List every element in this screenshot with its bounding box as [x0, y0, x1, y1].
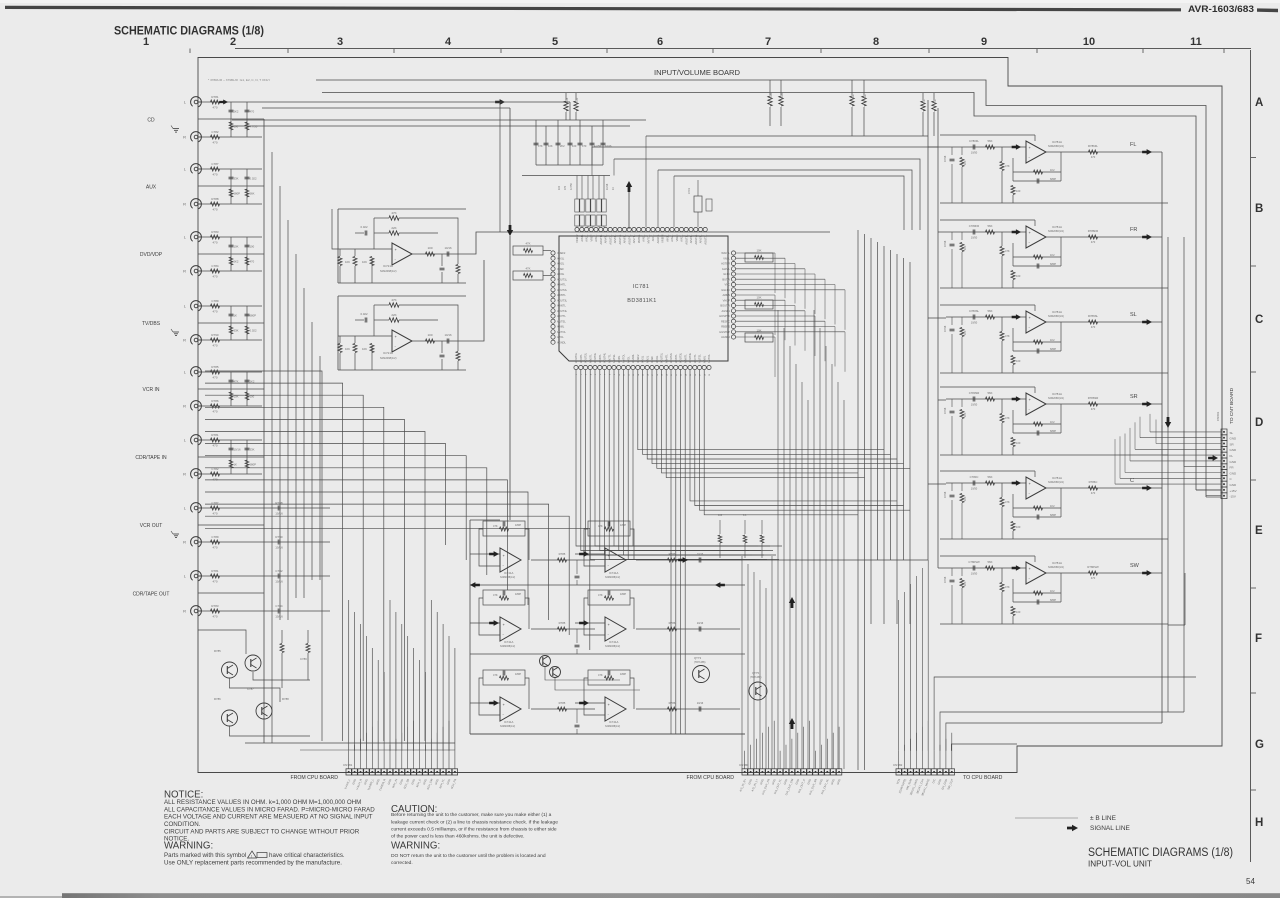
- svg-text:47/16: 47/16: [944, 491, 947, 498]
- svg-text:AIN7TL: AIN7TL: [557, 314, 566, 318]
- svg-text:10K: 10K: [362, 260, 367, 264]
- svg-text:8: 8: [609, 374, 611, 375]
- svg-text:54: 54: [1246, 877, 1255, 886]
- svg-text:VNC: VNC: [725, 283, 731, 287]
- svg-text:1K: 1K: [612, 187, 615, 190]
- svg-text:R790: R790: [211, 333, 219, 337]
- svg-text:56K: 56K: [988, 309, 993, 313]
- svg-text:C780FR: C780FR: [969, 224, 979, 228]
- svg-text:47K: 47K: [1005, 500, 1010, 504]
- svg-text:AIN7TL: AIN7TL: [693, 354, 697, 363]
- svg-text:56K: 56K: [988, 139, 993, 143]
- svg-text:TO CNT BOARD: TO CNT BOARD: [1229, 387, 1235, 424]
- svg-text:AIN6TL: AIN6TL: [683, 354, 687, 363]
- svg-text:AOUT2L: AOUT2L: [557, 288, 568, 292]
- svg-text:GLTC: GLTC: [723, 272, 730, 276]
- svg-text:INPUT-VOL UNIT: INPUT-VOL UNIT: [1088, 860, 1152, 869]
- svg-text:AIN8L: AIN8L: [642, 234, 646, 242]
- svg-text:22K: 22K: [391, 226, 396, 230]
- svg-text:MUTEL: MUTEL: [698, 354, 702, 363]
- svg-text:AIN5TL: AIN5TL: [557, 293, 566, 297]
- svg-text:AOUT4L: AOUT4L: [688, 352, 692, 363]
- svg-text:H: H: [1255, 817, 1263, 829]
- svg-text:AOUT1L: AOUT1L: [599, 234, 603, 245]
- svg-text:HGSTEP: HGSTEP: [719, 330, 730, 334]
- svg-text:AOUT3L: AOUT3L: [703, 234, 707, 245]
- svg-text:FL: FL: [1130, 142, 1136, 148]
- svg-text:100: 100: [1016, 359, 1021, 363]
- svg-text:BD3811K1: BD3811K1: [627, 298, 656, 304]
- svg-text:RBSPS: RBSPS: [721, 325, 730, 329]
- svg-text:C787: C787: [211, 162, 219, 166]
- svg-text:10/50: 10/50: [971, 403, 978, 407]
- svg-text:AIN3L: AIN3L: [680, 234, 684, 242]
- svg-text:470: 470: [212, 512, 217, 516]
- svg-text:AIN3L: AIN3L: [557, 272, 565, 276]
- svg-text:VREF: VREF: [675, 234, 679, 241]
- svg-text:R783: R783: [211, 604, 219, 608]
- svg-text:100: 100: [427, 246, 432, 250]
- svg-text:NJM2068(1/2): NJM2068(1/2): [1048, 481, 1064, 484]
- svg-text:33K: 33K: [250, 448, 255, 452]
- svg-text:R785: R785: [559, 621, 566, 625]
- svg-text:AGSF1: AGSF1: [721, 309, 730, 313]
- svg-text:10K: 10K: [362, 347, 367, 351]
- svg-text:have critical characteristics.: have critical characteristics.: [269, 852, 345, 859]
- svg-text:R788: R788: [211, 197, 219, 201]
- svg-text:10/16: 10/16: [275, 615, 283, 619]
- svg-text:AOUT4L: AOUT4L: [603, 352, 607, 363]
- svg-text:47K: 47K: [526, 267, 531, 271]
- svg-text:MUTEL: MUTEL: [612, 354, 616, 363]
- svg-text:470: 470: [250, 110, 255, 114]
- svg-text:AGNDL: AGNDL: [631, 354, 635, 363]
- svg-text:GND: GND: [1230, 437, 1238, 441]
- svg-text:47K: 47K: [493, 673, 498, 677]
- svg-text:470: 470: [212, 310, 217, 314]
- svg-text:QT75: QT75: [752, 671, 759, 675]
- svg-text:47/16: 47/16: [944, 407, 947, 414]
- svg-text:100: 100: [1016, 189, 1021, 193]
- svg-text:WAVTL: WAVTL: [721, 251, 730, 255]
- svg-text:AIN2L: AIN2L: [645, 355, 649, 363]
- svg-text:470: 470: [1091, 240, 1096, 244]
- svg-text:470: 470: [212, 410, 217, 414]
- svg-text:AIN4TL: AIN4TL: [604, 234, 608, 243]
- svg-text:10K: 10K: [964, 496, 967, 501]
- svg-text:R708: R708: [565, 97, 569, 104]
- svg-text:AIN8L: AIN8L: [557, 325, 565, 329]
- svg-text:IC741A: IC741A: [609, 720, 618, 724]
- svg-text:180P: 180P: [620, 672, 626, 676]
- svg-text:56K: 56K: [988, 475, 993, 479]
- svg-text:VREF: VREF: [557, 267, 564, 271]
- svg-text:C780SW: C780SW: [968, 560, 980, 564]
- svg-text:R786SR: R786SR: [1088, 396, 1099, 400]
- svg-text:7: 7: [765, 36, 771, 48]
- svg-text:2: 2: [230, 36, 236, 48]
- svg-text:100: 100: [250, 245, 255, 249]
- svg-text:AIN4TL: AIN4TL: [664, 354, 668, 363]
- svg-text:AIN4TL: AIN4TL: [557, 283, 566, 287]
- svg-text:47K: 47K: [493, 593, 498, 597]
- svg-text:R: R: [183, 609, 186, 614]
- svg-text:AIN1L: AIN1L: [665, 234, 669, 242]
- svg-text:INPUT/VOLUME BOARD: INPUT/VOLUME BOARD: [654, 68, 740, 77]
- svg-text:470: 470: [212, 546, 217, 550]
- svg-text:GGLTC: GGLTC: [721, 288, 730, 292]
- svg-text:10/16: 10/16: [697, 701, 704, 705]
- svg-text:VREF: VREF: [650, 356, 654, 363]
- svg-text:CONDITION.: CONDITION.: [164, 821, 201, 828]
- svg-text:AOUT1L: AOUT1L: [574, 352, 578, 363]
- svg-text:10/16: 10/16: [234, 448, 241, 452]
- svg-text:47K: 47K: [1005, 585, 1010, 589]
- svg-text:470: 470: [212, 106, 217, 110]
- svg-text:R: R: [183, 135, 186, 140]
- svg-text:470: 470: [564, 185, 567, 190]
- svg-text:E: E: [1255, 525, 1263, 537]
- svg-text:4: 4: [590, 374, 592, 375]
- svg-text:R785: R785: [214, 649, 221, 653]
- svg-text:10K: 10K: [964, 412, 967, 417]
- svg-text:10K: 10K: [757, 296, 762, 300]
- svg-text:2K2: 2K2: [234, 110, 239, 114]
- svg-text:ALL RESISTANCE VALUES IN OHM.: ALL RESISTANCE VALUES IN OHM. k=1,000 OH…: [164, 799, 361, 806]
- svg-text:R: R: [183, 202, 186, 207]
- svg-text:AIN6TL: AIN6TL: [623, 234, 627, 243]
- svg-text:IC781A: IC781A: [1052, 225, 1062, 229]
- svg-text:GND: GND: [1230, 448, 1238, 452]
- svg-text:AIN1L: AIN1L: [641, 355, 645, 363]
- svg-text:VREF2: VREF2: [636, 354, 640, 363]
- svg-text:A: A: [1255, 97, 1263, 109]
- svg-text:VCR IN: VCR IN: [143, 387, 160, 393]
- svg-text:1K2: 1K2: [1050, 420, 1055, 424]
- svg-text:CN782: CN782: [893, 763, 903, 767]
- svg-text:1K2: 1K2: [1050, 338, 1055, 342]
- svg-text:AIN3L: AIN3L: [655, 355, 659, 363]
- svg-text:ALL CAPACITANCE VALUES IN MICR: ALL CAPACITANCE VALUES IN MICRO FARAD. P…: [164, 806, 375, 813]
- svg-text:47K: 47K: [526, 242, 531, 246]
- svg-text:AOUT2L: AOUT2L: [694, 234, 698, 245]
- svg-text:+15V: +15V: [1230, 489, 1237, 493]
- svg-text:IC781: IC781: [633, 284, 650, 290]
- svg-text:47K: 47K: [1005, 249, 1010, 253]
- svg-text:NJM2068(1/2): NJM2068(1/2): [500, 725, 515, 728]
- svg-text:180P: 180P: [620, 592, 626, 596]
- svg-text:AIN1L: AIN1L: [557, 256, 565, 260]
- svg-text:IC741A: IC741A: [609, 571, 618, 575]
- svg-text:AOUT3L: AOUT3L: [593, 352, 597, 363]
- svg-text:Use ONLY replacement parts rec: Use ONLY replacement parts recommended b…: [164, 859, 342, 866]
- svg-text:X701: X701: [687, 187, 691, 194]
- svg-text:10/16: 10/16: [605, 144, 612, 148]
- svg-text:47K: 47K: [1005, 164, 1010, 168]
- svg-text:VNSL: VNSL: [723, 256, 730, 260]
- svg-text:Before returning the unit to t: Before returning the unit to the custome…: [391, 812, 552, 818]
- svg-text:10/50: 10/50: [971, 151, 978, 155]
- svg-text:C780FL: C780FL: [969, 139, 979, 143]
- svg-text:C780SR: C780SR: [969, 391, 980, 395]
- svg-text:AOUT3L: AOUT3L: [679, 352, 683, 363]
- svg-text:10/50: 10/50: [971, 572, 978, 576]
- svg-text:AVR-1603/683: AVR-1603/683: [1188, 4, 1254, 15]
- svg-text:AIN6TL: AIN6TL: [557, 304, 566, 308]
- svg-text:680P: 680P: [1050, 347, 1056, 351]
- svg-text:470: 470: [1091, 491, 1096, 495]
- svg-text:1K2: 1K2: [1050, 504, 1055, 508]
- svg-text:680P: 680P: [1050, 429, 1056, 433]
- svg-text:47K: 47K: [391, 211, 396, 215]
- svg-text:MVTOL: MVTOL: [646, 234, 650, 243]
- svg-text:10K: 10K: [345, 260, 350, 264]
- svg-text:AOUT4L: AOUT4L: [627, 234, 631, 245]
- svg-text:SR: SR: [1130, 394, 1138, 400]
- svg-text:100K: 100K: [780, 93, 784, 99]
- svg-text:AIN8L: AIN8L: [702, 355, 706, 363]
- svg-text:AOUT3L: AOUT3L: [557, 298, 568, 302]
- svg-text:47K: 47K: [493, 524, 498, 528]
- svg-text:C789: C789: [300, 657, 307, 661]
- svg-text:22K: 22K: [851, 94, 855, 99]
- svg-text:10/16: 10/16: [697, 552, 704, 556]
- svg-text:180P: 180P: [620, 523, 626, 527]
- svg-text:0.1: 0.1: [743, 514, 747, 517]
- svg-text:470: 470: [212, 580, 217, 584]
- svg-text:R: R: [183, 540, 186, 545]
- svg-text:100K: 100K: [769, 93, 773, 99]
- svg-text:C784: C784: [211, 264, 219, 268]
- svg-text:NJM2068(1/2): NJM2068(1/2): [380, 269, 397, 273]
- svg-text:10/16: 10/16: [275, 580, 283, 584]
- svg-text:F: F: [1255, 633, 1262, 645]
- svg-text:IC741A: IC741A: [609, 640, 618, 644]
- svg-text:10/16: 10/16: [445, 333, 452, 337]
- svg-text:100: 100: [1016, 525, 1021, 529]
- svg-text:B: B: [1255, 203, 1263, 215]
- svg-text:CN780: CN780: [739, 763, 749, 767]
- svg-text:6: 6: [657, 36, 663, 48]
- svg-text:47K: 47K: [538, 144, 543, 148]
- svg-text:10K: 10K: [234, 245, 239, 249]
- svg-text:SW: SW: [1130, 563, 1140, 569]
- svg-text:SCHEMATIC DIAGRAMS (1/8): SCHEMATIC DIAGRAMS (1/8): [1088, 845, 1233, 859]
- svg-text:* 378RL/R ~ 379BL/R : E1, E2,: * 378RL/R ~ 379BL/R : E1, E2, C, N, T ON…: [208, 78, 270, 82]
- svg-text:SL: SL: [1230, 431, 1234, 435]
- svg-text:10/16: 10/16: [275, 546, 283, 550]
- svg-text:R785: R785: [559, 552, 566, 556]
- svg-text:NJM2068(1/2): NJM2068(1/2): [1048, 315, 1064, 318]
- svg-text:100: 100: [558, 185, 561, 190]
- svg-text:33K: 33K: [234, 329, 239, 333]
- svg-text:20: 20: [666, 374, 668, 376]
- svg-text:R781: R781: [211, 433, 219, 437]
- svg-text:47K: 47K: [1005, 416, 1010, 420]
- svg-text:GLPAL: GLPAL: [722, 267, 731, 271]
- svg-text:DVD/VDP: DVD/VDP: [140, 252, 163, 258]
- svg-text:NJM2068(1/2): NJM2068(1/2): [605, 576, 620, 579]
- svg-text:IC721A: IC721A: [383, 264, 393, 268]
- svg-text:WARNING:: WARNING:: [164, 841, 213, 852]
- svg-text:AOUT4L: AOUT4L: [557, 309, 568, 313]
- svg-text:10/50: 10/50: [971, 321, 978, 325]
- svg-text:NJM2068(1/2): NJM2068(1/2): [1048, 397, 1064, 400]
- svg-text:AIN1L: AIN1L: [580, 234, 584, 242]
- svg-text:R785: R785: [211, 365, 219, 369]
- svg-text:R786FL: R786FL: [1088, 144, 1098, 148]
- svg-text:AIN7TL: AIN7TL: [632, 234, 636, 243]
- svg-text:IC741A: IC741A: [504, 720, 513, 724]
- svg-text:R781: R781: [211, 569, 219, 573]
- svg-text:FR: FR: [1130, 227, 1137, 233]
- svg-text:(TR71485): (TR71485): [694, 661, 706, 664]
- svg-text:C787: C787: [247, 687, 254, 691]
- svg-text:16: 16: [647, 374, 649, 376]
- svg-text:680P: 680P: [234, 192, 241, 196]
- svg-text:R786: R786: [669, 621, 676, 625]
- svg-text:AIN5TL: AIN5TL: [613, 234, 617, 243]
- svg-text:1K2: 1K2: [1050, 589, 1055, 593]
- svg-text:NJM2068(1/2): NJM2068(1/2): [500, 645, 515, 648]
- svg-text:R786: R786: [214, 697, 221, 701]
- svg-text:AIN2L: AIN2L: [585, 234, 589, 242]
- svg-text:5: 5: [552, 36, 558, 48]
- svg-text:0.022: 0.022: [361, 312, 368, 316]
- svg-text:1K: 1K: [234, 314, 238, 318]
- svg-text:470: 470: [212, 208, 217, 212]
- svg-text:C789: C789: [211, 535, 219, 539]
- svg-text:CDR/TAPE OUT: CDR/TAPE OUT: [133, 592, 170, 598]
- svg-text:470: 470: [1091, 407, 1096, 411]
- svg-text:(TR71485): (TR71485): [750, 676, 762, 679]
- svg-text:R786: R786: [669, 552, 676, 556]
- svg-text:-15V: -15V: [1230, 495, 1236, 499]
- svg-text:AIN2L: AIN2L: [670, 234, 674, 242]
- svg-text:C782: C782: [211, 130, 219, 134]
- svg-text:100: 100: [718, 514, 723, 517]
- svg-text:2K2: 2K2: [560, 144, 565, 148]
- svg-text:SL: SL: [1130, 312, 1137, 318]
- svg-text:1: 1: [143, 36, 149, 48]
- svg-text:AIN4TL: AIN4TL: [689, 234, 693, 243]
- svg-text:470: 470: [212, 478, 217, 482]
- svg-text:DO NOT return the unit to the: DO NOT return the unit to the customer u…: [391, 853, 546, 859]
- svg-text:IC741A: IC741A: [504, 640, 513, 644]
- svg-text:470: 470: [1091, 325, 1096, 329]
- svg-text:MVTOL: MVTOL: [622, 354, 626, 363]
- svg-text:C784: C784: [275, 604, 283, 608]
- svg-text:1K2: 1K2: [1050, 168, 1055, 172]
- svg-text:47K: 47K: [391, 298, 396, 302]
- svg-text:AIN5TL: AIN5TL: [674, 354, 678, 363]
- svg-text:AIN6TL: AIN6TL: [598, 354, 602, 363]
- svg-text:IC781A: IC781A: [1052, 392, 1062, 396]
- svg-text:FROM CPU BOARD: FROM CPU BOARD: [290, 775, 338, 781]
- svg-text:VREF2: VREF2: [575, 234, 579, 243]
- svg-text:NJM2068(1/2): NJM2068(1/2): [1048, 145, 1064, 148]
- svg-text:MVTOL: MVTOL: [557, 330, 566, 334]
- svg-text:C780C: C780C: [970, 475, 979, 479]
- svg-text:10/16: 10/16: [445, 246, 452, 250]
- svg-text:680P: 680P: [1050, 262, 1056, 266]
- svg-text:12: 12: [628, 374, 630, 376]
- svg-text:AIN2L: AIN2L: [557, 262, 565, 266]
- svg-text:FL: FL: [1230, 454, 1234, 458]
- svg-text:R783: R783: [211, 230, 219, 234]
- svg-text:corrected.: corrected.: [391, 860, 413, 866]
- svg-text:R781: R781: [211, 95, 219, 99]
- svg-text:NJM2068(1/2): NJM2068(1/2): [1048, 230, 1064, 233]
- svg-text:9: 9: [981, 36, 987, 48]
- svg-text:47K: 47K: [598, 593, 603, 597]
- svg-text:NJM2068(1/2): NJM2068(1/2): [380, 356, 397, 360]
- svg-text:100: 100: [1016, 441, 1021, 445]
- svg-text:RESPC: RESPC: [721, 319, 730, 323]
- svg-text:10/50: 10/50: [971, 236, 978, 240]
- svg-text:AOUT3L: AOUT3L: [618, 234, 622, 245]
- svg-text:C780SL: C780SL: [969, 309, 980, 313]
- svg-text:NJM2068(1/2): NJM2068(1/2): [1048, 566, 1064, 569]
- svg-text:100: 100: [572, 144, 577, 148]
- svg-text:IC721A: IC721A: [383, 351, 393, 355]
- svg-text:BUTW: BUTW: [722, 277, 730, 281]
- svg-text:SIGNAL LINE: SIGNAL LINE: [1090, 825, 1131, 832]
- svg-text:AVOL: AVOL: [557, 335, 564, 339]
- svg-text:680P: 680P: [250, 463, 257, 467]
- svg-text:47K: 47K: [1005, 334, 1010, 338]
- svg-text:VREF2: VREF2: [557, 251, 566, 255]
- svg-text:4.7/50: 4.7/50: [250, 125, 258, 129]
- svg-text:470: 470: [582, 144, 587, 148]
- svg-text:470: 470: [1091, 576, 1096, 580]
- svg-text:0.022: 0.022: [250, 329, 257, 333]
- svg-text:AVOL: AVOL: [626, 356, 630, 363]
- svg-text:AIN8L: AIN8L: [617, 355, 621, 363]
- svg-text:AOUT2L: AOUT2L: [584, 352, 588, 363]
- svg-text:AGNDL: AGNDL: [656, 234, 660, 243]
- svg-text:47K: 47K: [933, 99, 937, 104]
- svg-text:IC781A: IC781A: [1052, 561, 1062, 565]
- svg-text:CN801: CN801: [1216, 411, 1220, 421]
- svg-text:180P: 180P: [515, 672, 521, 676]
- svg-text:3: 3: [337, 36, 343, 48]
- svg-text:current exceeds 0.5 milliamps,: current exceeds 0.5 milliamps, or if the…: [391, 827, 557, 833]
- svg-text:680P: 680P: [250, 314, 257, 318]
- svg-text:AGTER: AGTER: [721, 262, 730, 266]
- svg-text:10K: 10K: [964, 330, 967, 335]
- svg-text:CDR/TAPE IN: CDR/TAPE IN: [135, 455, 167, 461]
- svg-text:100: 100: [234, 125, 239, 129]
- svg-text:AIN7TL: AIN7TL: [607, 354, 611, 363]
- svg-text:AOUT1L: AOUT1L: [557, 277, 568, 281]
- svg-text:10/16: 10/16: [606, 183, 609, 190]
- svg-text:100: 100: [427, 333, 432, 337]
- svg-text:470: 470: [212, 241, 217, 245]
- svg-text:28: 28: [704, 374, 706, 376]
- svg-text:AIN3L: AIN3L: [594, 234, 598, 242]
- svg-text:56K: 56K: [250, 192, 255, 196]
- svg-text:470: 470: [212, 615, 217, 619]
- svg-text:VREF: VREF: [589, 234, 593, 241]
- svg-text:!: !: [251, 853, 252, 858]
- svg-text:47K: 47K: [598, 524, 603, 528]
- svg-text:10K: 10K: [964, 581, 967, 586]
- svg-text:47K: 47K: [598, 673, 603, 677]
- svg-text:CIRCUIT AND PARTS ARE SUBJECT: CIRCUIT AND PARTS ARE SUBJECT TO CHANGE …: [164, 829, 360, 836]
- svg-text:47/16: 47/16: [944, 576, 947, 583]
- svg-text:of the power card is less than: of the power card is less than 460kohms.…: [391, 834, 524, 840]
